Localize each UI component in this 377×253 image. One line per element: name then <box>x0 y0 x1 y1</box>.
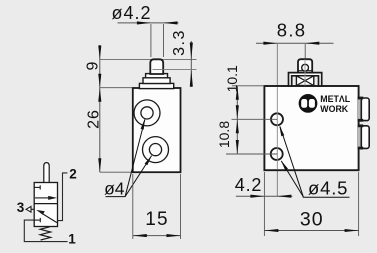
extension line 30 left <box>263 172 265 236</box>
leader ø4.5 arrowhead lower <box>281 160 288 170</box>
svg-text:METΛL: METΛL <box>320 94 350 104</box>
arrowhead 10.1 top <box>236 86 239 100</box>
extension line plunger right edge <box>163 24 165 57</box>
arrowhead 10.1 bottom <box>236 105 239 119</box>
body (side view) <box>264 86 358 170</box>
collar mid block <box>143 78 170 84</box>
closed port T lower (port 1) <box>34 219 40 221</box>
port hole lower outer circle <box>143 137 169 163</box>
extension line plunger left edge <box>150 24 152 57</box>
dimension line 8.8 <box>256 42 334 44</box>
closed port T upper <box>34 186 40 188</box>
extension line body top left <box>100 87 133 89</box>
arrowhead 30 left <box>264 229 278 232</box>
svg-text:10.8: 10.8 <box>216 121 232 148</box>
leader ø4 line to lower hole <box>125 156 152 197</box>
port hole lower inner circle <box>149 144 161 156</box>
dimension line 9/26 <box>99 45 101 172</box>
flow diagonal lower compartment <box>42 214 57 223</box>
leader ø4 shoulder <box>106 196 126 198</box>
extension line lower hole center <box>226 153 277 155</box>
extension line upper hole center <box>232 118 278 120</box>
extension line body top right-view <box>232 85 264 87</box>
arrowhead 3.3 top <box>190 43 193 60</box>
svg-text:9: 9 <box>84 61 101 70</box>
svg-text:ø4.5: ø4.5 <box>308 178 348 199</box>
centerline roller (gray) <box>304 59 306 85</box>
exhaust triangle port 3 <box>26 207 31 213</box>
centerline through holes (inside body) <box>276 87 278 169</box>
mounting clip lower <box>358 127 363 147</box>
dimension line 4.2 <box>236 195 293 197</box>
svg-text:WORK: WORK <box>320 104 348 114</box>
dimension line 15 <box>133 235 181 237</box>
bellows X-box <box>296 76 313 86</box>
port hole upper inner circle <box>141 107 153 119</box>
arrowhead 8.8 left <box>263 42 277 45</box>
leader ø4 arrowhead upper <box>141 119 145 130</box>
arrowhead 9 top <box>98 46 101 60</box>
extension line roller centerline top <box>304 44 306 59</box>
arrowhead 10.8 bottom <box>236 140 239 154</box>
extension/centerline through holes <box>276 44 278 196</box>
body (front view) <box>133 88 181 172</box>
bracket flange <box>289 73 322 86</box>
extension line 15 right <box>180 174 182 239</box>
dimension line 30 <box>264 230 358 232</box>
extension line 15 left <box>132 174 134 239</box>
svg-text:ø4: ø4 <box>104 179 125 199</box>
collar wide base <box>139 83 173 88</box>
arrowhead ø4.2 left <box>137 21 151 24</box>
leader ø4 arrowhead lower <box>145 155 152 165</box>
return spring <box>40 227 50 240</box>
arrowhead 15 left <box>133 234 147 237</box>
roller block inner line <box>299 70 312 72</box>
extension line body bottom left <box>100 171 133 173</box>
valve symbol divider <box>34 203 57 205</box>
svg-text:4.2: 4.2 <box>235 175 262 195</box>
leader ø4 line to upper hole <box>125 120 145 197</box>
arrowhead 3.3 bottom <box>190 70 193 87</box>
arrowhead 4.2 left <box>250 195 264 198</box>
svg-text:8.8: 8.8 <box>277 20 307 41</box>
flow arrow upper compartment <box>35 197 51 199</box>
leader ø4.5 line to lower hole <box>281 161 303 197</box>
arrowhead ø4.2 right <box>164 21 178 24</box>
plunger (front view) <box>150 59 163 74</box>
port 2 wire <box>58 173 68 221</box>
svg-text:1: 1 <box>68 232 76 247</box>
port hole upper outer circle <box>134 100 160 126</box>
arrowhead 15 right <box>167 234 181 237</box>
hole upper (side view) <box>271 113 283 125</box>
extension line A (plunger extended tip) <box>100 59 197 61</box>
port 1 wire <box>24 220 67 242</box>
bellows X diagonal 2 <box>296 76 313 86</box>
logo white cutouts <box>301 99 315 108</box>
arrowhead 30 right <box>345 229 359 232</box>
mounting clip upper <box>358 99 363 119</box>
dimension line 10.1 <box>236 86 238 120</box>
extension line 30 right <box>358 172 360 236</box>
valve symbol plunger stem <box>44 163 49 183</box>
leader ø4.5 line to upper hole <box>280 127 303 197</box>
logo disk <box>299 94 318 113</box>
arrowhead 9 bottom <box>98 74 101 88</box>
svg-text:2: 2 <box>69 167 77 182</box>
arrowhead 10.8 top <box>236 119 239 133</box>
dimension line 10.8 <box>236 119 238 154</box>
dimension line ø4.2 <box>118 22 179 24</box>
svg-text:3: 3 <box>17 200 25 215</box>
arrowhead 4.2 right <box>277 195 291 198</box>
collar washer step <box>146 74 168 78</box>
svg-text:3.3: 3.3 <box>171 29 188 56</box>
leader ø4.5 shoulder <box>303 196 350 198</box>
arrowhead 26 bottom <box>98 158 101 172</box>
svg-text:ø4.2: ø4.2 <box>111 3 151 23</box>
svg-text:15: 15 <box>145 209 169 230</box>
dimension line 3.3 <box>190 41 192 87</box>
roller pin circle <box>302 64 309 71</box>
hole lower (side view) <box>271 148 283 160</box>
bellows X diagonal 1 <box>296 76 313 86</box>
roller housing block <box>298 59 312 72</box>
svg-text:30: 30 <box>300 209 324 231</box>
leader ø4.5 arrowhead upper <box>279 125 284 136</box>
arrowhead 26 top <box>98 88 101 102</box>
arrowhead 8.8 right <box>305 42 319 45</box>
valve symbol box <box>34 183 57 227</box>
extension line C (plunger base) <box>153 69 197 71</box>
